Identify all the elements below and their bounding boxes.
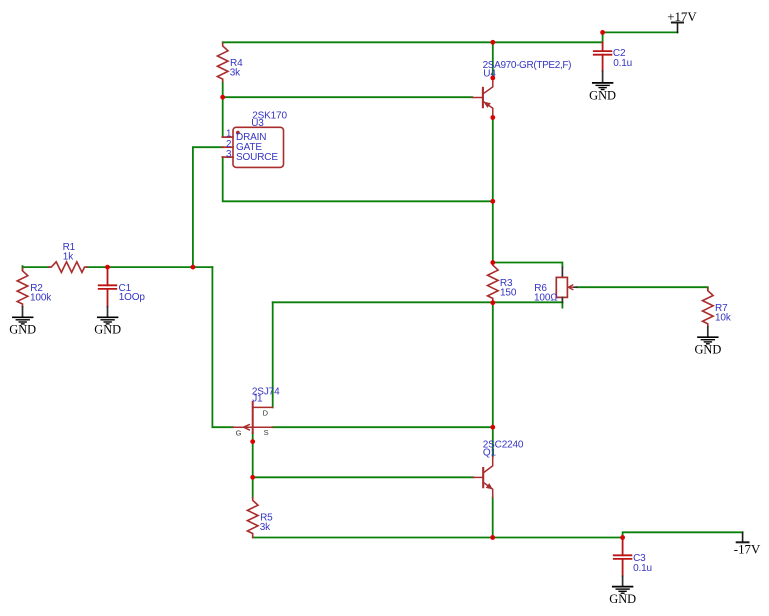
junction dot U4 emitter rail xyxy=(490,40,495,45)
ground GND (C3) xyxy=(613,587,633,594)
svg-text:U4: U4 xyxy=(483,68,496,79)
C1 lead dark xyxy=(107,307,109,317)
wire bottom rail xyxy=(253,537,623,539)
junction dot +17V C2 xyxy=(600,30,605,35)
resistor R5 xyxy=(247,498,258,538)
svg-text:1k: 1k xyxy=(63,251,74,262)
svg-text:U3: U3 xyxy=(251,118,264,129)
wire main input bus left xyxy=(23,266,50,268)
capacitor C1 xyxy=(99,267,117,307)
ground GND (R7) xyxy=(698,337,718,344)
junction dot gate tap xyxy=(191,265,196,270)
ground GND (R2) xyxy=(13,317,33,324)
resistor R3 xyxy=(487,263,498,303)
resistor R7 xyxy=(703,288,714,327)
wire J1 source to column xyxy=(273,426,493,428)
svg-text:S: S xyxy=(264,428,269,437)
resistor R4 xyxy=(217,43,228,81)
ground GND (C1) xyxy=(98,317,118,324)
wire top rail R4 to C2 xyxy=(223,41,603,43)
transistor U4 2SA970 (PNP) xyxy=(472,78,493,118)
svg-text:GND: GND xyxy=(609,592,636,606)
supply -17V xyxy=(737,532,749,542)
wire Q1 emitter down xyxy=(492,498,494,538)
wire U3 source down and right xyxy=(223,157,493,201)
ground GND (C2) xyxy=(593,83,613,90)
jfet U3 box 2SK170 xyxy=(222,127,283,167)
junction dot source wire xyxy=(490,199,495,204)
svg-text:GND: GND xyxy=(589,88,616,102)
svg-text:GND: GND xyxy=(9,323,36,337)
supply +17V xyxy=(672,23,683,33)
svg-text:J1: J1 xyxy=(252,394,263,405)
svg-text:1OOp: 1OOp xyxy=(119,292,146,303)
svg-text:2SA970-GR(TPE2,F): 2SA970-GR(TPE2,F) xyxy=(483,60,572,71)
C3 lead dark xyxy=(622,576,624,586)
wire input bus corner down to J1 gate xyxy=(212,267,233,427)
C2 lead dark xyxy=(602,71,604,82)
wire Q1 base feed xyxy=(253,476,474,478)
svg-text:D: D xyxy=(263,409,269,418)
wire U3 gate feed xyxy=(193,147,223,267)
wire U4 base rail xyxy=(223,96,473,98)
svg-text:+17V: +17V xyxy=(667,10,697,24)
wire C3 junction step to -17V xyxy=(623,532,743,537)
svg-text:G: G xyxy=(236,429,242,438)
svg-text:3k: 3k xyxy=(260,522,271,533)
U4 pin end dots xyxy=(490,76,495,81)
svg-text:-17V: -17V xyxy=(734,543,761,557)
wire U4 collector down to R3 xyxy=(492,120,494,263)
wire R3 top to R6 xyxy=(493,263,563,268)
R2 lead dark xyxy=(22,307,24,317)
wire junction R4 to U3 pin1 xyxy=(222,97,224,137)
wire R3 bottom down to Q1 collector xyxy=(492,303,494,457)
junction dot Q1 base tap xyxy=(250,475,255,480)
svg-text:100k: 100k xyxy=(30,292,52,303)
wire R4 bottom to junction xyxy=(222,81,224,97)
svg-text:100Ω: 100Ω xyxy=(534,293,558,304)
wire R6 wiper to R7 xyxy=(577,287,708,289)
Q1 emitter arrow xyxy=(486,483,493,489)
svg-text:150: 150 xyxy=(500,287,517,298)
junction dot C3 tap xyxy=(620,535,625,540)
resistor R2 xyxy=(17,268,28,307)
wire input bus right of R1 xyxy=(87,266,212,268)
junction dot below J1 xyxy=(250,439,255,444)
wire C2 vertical stub xyxy=(602,32,604,42)
junction dot R4 bottom xyxy=(220,95,225,100)
svg-text:SOURCE: SOURCE xyxy=(236,152,278,163)
svg-text:3k: 3k xyxy=(230,67,241,78)
R7 lead dark xyxy=(707,327,709,337)
svg-text:GND: GND xyxy=(694,343,721,357)
transistor Q1 2SC2240 (NPN) xyxy=(473,457,492,498)
junction dot C1 tap xyxy=(105,265,110,270)
resistor R1 xyxy=(49,262,87,273)
junction dot Q1 emitter rail xyxy=(490,535,495,540)
trimmer R6 xyxy=(556,268,577,303)
svg-text:Q1: Q1 xyxy=(483,447,497,458)
svg-text:GND: GND xyxy=(94,323,121,337)
svg-text:0.1u: 0.1u xyxy=(613,58,632,69)
U4 emitter arrow xyxy=(484,102,491,108)
junction dot R3 bottom xyxy=(490,300,495,305)
capacitor C3 xyxy=(614,538,632,577)
wire R6 bottom stub xyxy=(561,302,563,307)
svg-text:10k: 10k xyxy=(715,313,732,324)
wire R2 top lead xyxy=(22,266,24,270)
wire J1 below bar down to R5 xyxy=(252,433,254,498)
wire +17V feed xyxy=(603,31,678,33)
junction dot source-collector xyxy=(490,425,495,430)
wire J1 drain up xyxy=(272,302,274,407)
svg-text:0.1u: 0.1u xyxy=(633,563,652,574)
capacitor C2 xyxy=(594,42,612,71)
wire R3 bottom to R6 bottom xyxy=(273,301,563,303)
jfet J1 2SJ74 xyxy=(233,402,273,433)
junction dot R3 top xyxy=(490,260,495,265)
wire U4 emitter top xyxy=(492,42,494,76)
svg-text:3: 3 xyxy=(226,149,232,160)
